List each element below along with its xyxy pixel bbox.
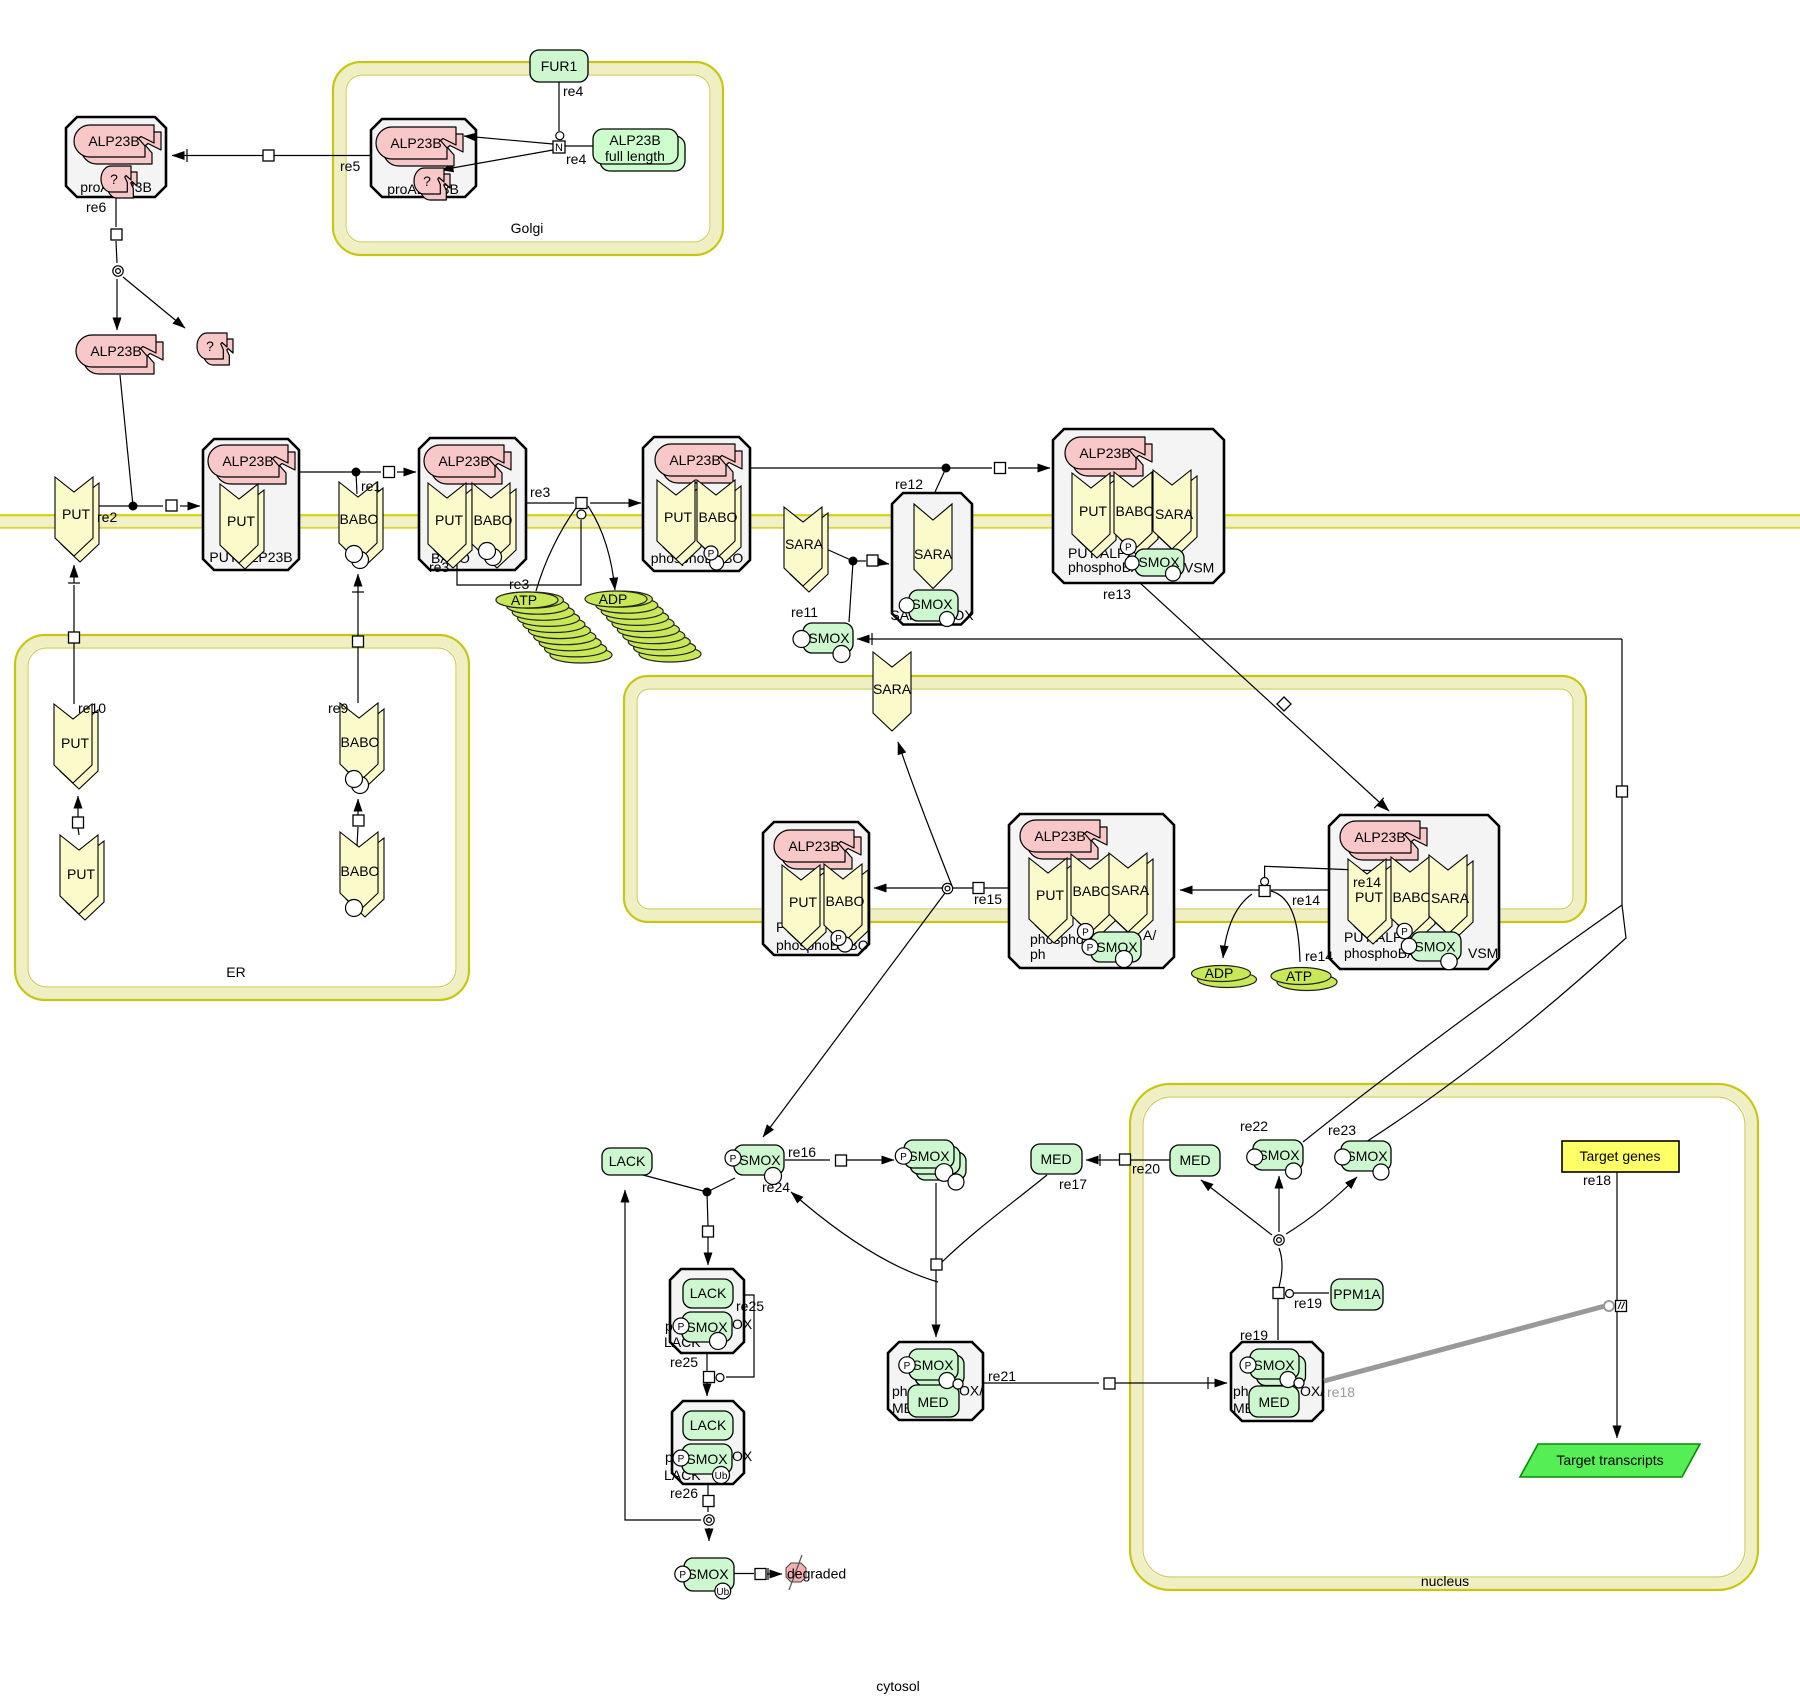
svg-text:ALP23B: ALP23B [669,452,720,468]
svg-text:SARA: SARA [1431,890,1470,906]
svg-text:SMOX: SMOX [1346,1148,1388,1164]
node SMOX trimer [904,1140,966,1180]
svg-text:A/: A/ [1143,927,1156,943]
svg-text:P: P [1087,943,1094,954]
svg-text:SMOX: SMOX [808,630,850,646]
svg-text:re19: re19 [1294,1295,1322,1311]
wire re1 complex+BABO [299,472,416,494]
complex phosphoSMOX/MED (cytosol) [888,1342,983,1420]
wire nucleus dissociation fan re22 re23 [1201,1176,1357,1340]
svg-text:ALP23B: ALP23B [88,133,139,149]
svg-text:VSM: VSM [1184,560,1214,576]
complex phosphoSMOX/MED (nucleus) [1231,1342,1324,1421]
node ? fragment in Golgi complex [414,168,450,200]
complex PUT/ALP23B/BABO [419,438,526,570]
members of complex C0 [909,1349,964,1386]
endosome compartment [624,676,1586,922]
svg-text:re4: re4 [566,151,586,167]
svg-text:P: P [1082,928,1089,939]
svg-text:BABO: BABO [340,511,379,527]
members of complex phosphoBABO [655,444,742,483]
svg-text:degraded: degraded [787,1566,846,1582]
svg-text:ph: ph [1233,1383,1249,1399]
svg-text:p: p [665,1318,673,1334]
ATP stack [496,592,612,663]
svg-text:PUT: PUT [435,512,463,528]
members of complex SARA/SMOX [914,504,953,589]
complex E2 [1009,814,1174,968]
members of complex PUT/ALP23B/BABO [424,445,511,484]
svg-text:cytosol: cytosol [876,1678,920,1694]
members of complex C1 [683,1279,733,1308]
complex LACK/phosphoSMOX 2 (Ub) [664,1401,753,1484]
svg-text:OX: OX [732,1316,753,1332]
svg-text:re12: re12 [895,476,923,492]
node ? fragment in left complex [101,166,137,198]
svg-text:?: ? [206,338,214,354]
svg-text:BABO: BABO [1116,503,1155,519]
svg-text:re20: re20 [1132,1161,1160,1177]
svg-text:re3: re3 [509,576,529,592]
svg-text:ALP23B: ALP23B [390,135,441,151]
node MED cytosol [1031,1144,1082,1174]
svg-text:ALP23B: ALP23B [1034,828,1085,844]
svg-text:SMOX: SMOX [686,1451,728,1467]
plasma membrane [0,515,1800,528]
svg-text:ALP23B: ALP23B [788,838,839,854]
svg-text:?: ? [423,173,431,189]
members of complex E1 [774,830,861,869]
svg-text:PUT: PUT [227,513,255,529]
svg-text:re11: re11 [791,604,818,620]
svg-text:P: P [678,1454,685,1465]
svg-text:VSM: VSM [1468,945,1498,961]
node Target transcripts [1520,1444,1700,1477]
nucleus compartment [1130,1084,1758,1590]
svg-text:re25: re25 [670,1354,698,1370]
svg-text:P: P [679,1570,686,1581]
svg-text:ATP: ATP [511,592,537,608]
node free SMOX [803,623,853,653]
node Target genes [1562,1141,1679,1172]
svg-text:re24: re24 [762,1179,790,1195]
wire re16 SMOX trimerization [785,1159,894,1161]
node free ALP23B [76,335,163,374]
node BABO in ER upper [340,703,384,788]
svg-text:re3: re3 [530,484,550,500]
wire re17 MED joins trimer [936,1175,1047,1337]
svg-text:re14: re14 [1353,874,1381,890]
complex PUT/ALP23B [203,439,299,570]
svg-text:ALP23B: ALP23B [438,453,489,469]
svg-text:re16: re16 [788,1144,816,1160]
svg-text:SMOX: SMOX [1096,939,1138,955]
wire re26 ubiquitination chain [625,1190,709,1541]
node BABO in ER lower [340,832,384,917]
wire re18 transcription [1324,1170,1617,1438]
node phosphoSMOX [734,1145,784,1175]
svg-text:SMOX: SMOX [1414,939,1456,955]
complex re13 product [1053,429,1224,583]
complex SARA/SMOX [890,493,974,625]
ADP stack [585,591,701,662]
node PUT in ER upper [54,704,98,789]
node ALP23B in Golgi complex [376,127,463,166]
node ALP23B full length [593,129,685,171]
wire re11 SARA+SMOX [824,548,889,622]
wire re6 dissociation [116,197,185,330]
svg-text:re26: re26 [670,1485,698,1501]
svg-text:?: ? [110,171,118,187]
svg-text:SMOX: SMOX [911,596,953,612]
svg-text:PUT: PUT [62,506,90,522]
svg-text:P: P [904,1361,911,1372]
svg-text:SARA: SARA [1111,882,1150,898]
svg-text:ALP23B: ALP23B [609,132,660,148]
transcription glyph [1604,1301,1627,1312]
svg-text:re19: re19 [1240,1327,1268,1343]
svg-text:BABO: BABO [1073,883,1112,899]
svg-text:Target genes: Target genes [1580,1148,1661,1164]
svg-text:SARA: SARA [785,536,824,552]
wire re12 SARA joins complex [750,468,1050,492]
complex E1 [763,822,869,955]
wire re10 PUT from ER [68,565,80,835]
node SARA receptor at membrane [784,507,828,592]
svg-text:P: P [730,1154,737,1165]
wire long SMOX return line [857,633,1626,1142]
svg-text:Target transcripts: Target transcripts [1556,1452,1663,1468]
svg-text:SMOX: SMOX [687,1566,729,1582]
svg-text:MED: MED [917,1394,948,1410]
svg-text:SMOX: SMOX [1253,1357,1295,1373]
svg-text:P: P [1401,927,1408,938]
svg-text:ph: ph [1030,946,1046,962]
svg-text:P: P [1125,543,1132,554]
node FUR1 [530,50,588,82]
svg-text:BABO: BABO [826,893,865,909]
dissociation glyphs [113,266,123,276]
svg-text:re25: re25 [736,1298,764,1314]
svg-text:re14: re14 [1305,948,1333,964]
node SARA receptor at endosome [873,652,912,731]
svg-text:P: P [900,1152,907,1163]
svg-text:re10: re10 [78,700,106,716]
members of complex re13 [1065,437,1152,476]
svg-text:ALP23B: ALP23B [1354,829,1405,845]
wire re24 trimer back to SMOX [791,1192,938,1282]
svg-text:re14: re14 [1292,892,1320,908]
wire re15 dissociation in endosome [763,742,1009,1137]
ATP small [1271,968,1337,991]
svg-text:re5: re5 [340,158,360,174]
complex proALP23B (Golgi) [371,119,476,197]
svg-text:BABO: BABO [699,509,738,525]
residue circles [346,539,1458,1599]
svg-text:Ub: Ub [715,1471,728,1482]
svg-text:PUT: PUT [1079,503,1107,519]
svg-text:re17: re17 [1059,1176,1087,1192]
svg-text:PUT: PUT [67,866,95,882]
junction dots [129,502,138,511]
svg-text:PUT: PUT [789,894,817,910]
members of complex E2 [1020,820,1107,859]
svg-text:nucleus: nucleus [1421,1573,1469,1589]
svg-text:LACK: LACK [690,1417,727,1433]
complex E3 [1329,815,1499,969]
svg-text:ALP23B: ALP23B [222,453,273,469]
svg-text:re6: re6 [86,199,106,215]
svg-text:BABO: BABO [1393,889,1432,905]
svg-text:ADP: ADP [599,591,628,607]
node ALP23B in left complex [74,125,161,164]
node LACK [602,1148,652,1175]
svg-text:re9: re9 [328,700,348,716]
svg-text:Ub: Ub [716,1587,729,1598]
svg-text:re15: re15 [974,891,1002,907]
svg-text:BABO: BABO [341,734,380,750]
wire re13 transport to endosome [1140,583,1389,811]
wire re3 phosphorylation [457,503,641,591]
wire re25 LACK binds phosphoSMOX [643,1175,754,1396]
svg-text:ALP23B: ALP23B [90,343,141,359]
node free ? fragment [197,333,233,365]
reaction labels [78,83,1611,1501]
svg-text:MED: MED [1179,1152,1210,1168]
svg-text:PUT: PUT [1355,889,1383,905]
svg-text:LACK: LACK [690,1285,727,1301]
svg-text:re22: re22 [1240,1118,1268,1134]
svg-text:full length: full length [605,148,665,164]
svg-text:ATP: ATP [1286,968,1312,984]
svg-text:PUT: PUT [1036,887,1064,903]
process squares [69,141,1628,1580]
svg-text:re21: re21 [988,1368,1016,1384]
svg-text:SMOX: SMOX [1258,1147,1300,1163]
svg-text:re23: re23 [1328,1122,1356,1138]
svg-text:PUT: PUT [61,735,89,751]
wire degradation [734,1568,782,1580]
ER compartment [15,635,469,1000]
wire re20 MED out of nucleus [1086,1154,1170,1166]
node PPM1A [1331,1279,1383,1310]
svg-text:re18: re18 [1583,1172,1611,1188]
members of complex PUT/ALP23B [208,445,295,484]
svg-text:re2: re2 [97,509,117,525]
node SMOX re23 [1341,1141,1391,1171]
svg-text:re13: re13 [1103,586,1131,602]
svg-text:SMOX: SMOX [739,1152,781,1168]
svg-text:PPM1A: PPM1A [1333,1286,1381,1302]
svg-text:ER: ER [226,964,245,980]
catalysis circles [556,132,564,140]
node PUT receptor at membrane [55,477,99,562]
wire re4 FUR1 truncation [441,82,593,170]
ADP small [1192,965,1257,988]
svg-text:OX: OX [732,1448,753,1464]
svg-text:BABO: BABO [341,863,380,879]
svg-text:MED: MED [1258,1394,1289,1410]
svg-text:SMOX: SMOX [908,1148,950,1164]
wire re2 PUT+ALP23B to complex [97,375,200,506]
svg-text:SARA: SARA [914,546,953,562]
svg-text:Golgi: Golgi [511,220,544,236]
svg-text:BABO: BABO [474,512,513,528]
svg-text:SMOX: SMOX [912,1357,954,1373]
members of complex E3 [1340,821,1427,860]
svg-text:FUR1: FUR1 [541,58,578,74]
node PUT in ER lower [60,835,104,920]
node ubiquitinated SMOX [684,1558,734,1591]
wire re5 transport out of Golgi [172,149,371,162]
svg-text:ph: ph [892,1383,908,1399]
complex LACK/phosphoSMOX 1 [664,1269,753,1353]
svg-text:re1: re1 [361,478,381,494]
wire re9 BABO from ER [352,574,364,846]
node BABO receptor at membrane [339,482,383,567]
svg-text:SARA: SARA [873,681,912,697]
svg-text:LACK: LACK [609,1153,646,1169]
node SMOX re22 [1253,1140,1303,1170]
svg-text:PUT: PUT [664,509,692,525]
svg-text:p: p [665,1449,673,1465]
svg-text:re3: re3 [429,559,449,575]
wire re14 dephosphorylation [1180,866,1382,962]
complex proALP23B (left) [66,117,166,197]
svg-text:ALP23B: ALP23B [1079,445,1130,461]
svg-text:N: N [555,142,563,154]
wire re21 transport into nucleus [983,1377,1227,1389]
svg-text:MED: MED [1040,1151,1071,1167]
svg-text:SARA: SARA [1155,506,1194,522]
svg-text:P: P [835,934,842,945]
svg-text:re18: re18 [1327,1384,1355,1400]
svg-text:SMOX: SMOX [686,1319,728,1335]
svg-text:re4: re4 [563,83,583,99]
svg-text:ADP: ADP [1205,965,1234,981]
svg-text:P: P [678,1322,685,1333]
node MED nucleus [1170,1145,1220,1176]
svg-text:P: P [708,549,715,560]
complex phosphoBABO [643,437,750,571]
members of complex N1 [1250,1349,1306,1386]
svg-text:P: P [1245,1361,1252,1372]
node degraded [786,1555,846,1590]
Golgi compartment [333,62,723,255]
members of complex C2 [683,1411,733,1440]
